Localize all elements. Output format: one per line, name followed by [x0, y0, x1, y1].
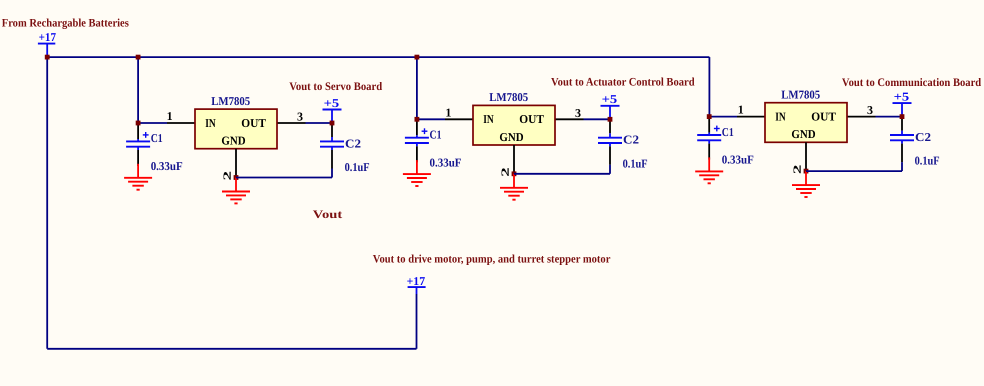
svg-text:+17: +17	[407, 274, 426, 288]
svg-text:LM7805: LM7805	[489, 90, 528, 104]
svg-text:C1: C1	[430, 128, 442, 142]
svg-text:Vout to Servo Board: Vout to Servo Board	[289, 81, 383, 93]
svg-text:Vout to drive motor, pump, and: Vout to drive motor, pump, and turret st…	[373, 254, 611, 266]
svg-text:Vout to Communication Board: Vout to Communication Board	[842, 77, 982, 89]
svg-text:+17: +17	[39, 30, 56, 44]
svg-text:OUT: OUT	[241, 116, 266, 130]
svg-text:0.33uF: 0.33uF	[151, 159, 183, 173]
svg-text:GND: GND	[221, 134, 245, 148]
svg-text:GND: GND	[791, 127, 815, 141]
svg-text:0.1uF: 0.1uF	[623, 156, 648, 170]
svg-text:OUT: OUT	[811, 109, 836, 123]
svg-text:IN: IN	[483, 112, 494, 126]
svg-text:+5: +5	[602, 92, 618, 106]
svg-text:LM7805: LM7805	[781, 87, 820, 101]
svg-text:GND: GND	[499, 130, 523, 144]
svg-text:+5: +5	[324, 96, 340, 110]
svg-text:OUT: OUT	[519, 112, 544, 126]
svg-text:0.33uF: 0.33uF	[430, 155, 462, 169]
svg-text:0.1uF: 0.1uF	[915, 154, 940, 168]
svg-text:LM7805: LM7805	[211, 94, 250, 108]
svg-text:IN: IN	[775, 109, 786, 123]
svg-text:Vout: Vout	[313, 209, 343, 221]
svg-text:IN: IN	[205, 116, 216, 130]
svg-text:3: 3	[575, 106, 581, 120]
svg-text:C2: C2	[915, 130, 931, 144]
svg-text:C2: C2	[623, 133, 639, 147]
svg-text:0.33uF: 0.33uF	[722, 153, 754, 167]
svg-text:Vout to Actuator Control Board: Vout to Actuator Control Board	[551, 77, 695, 89]
svg-text:1: 1	[167, 109, 173, 123]
svg-text:C2: C2	[345, 136, 361, 150]
svg-text:C1: C1	[151, 131, 163, 145]
svg-text:C1: C1	[722, 125, 734, 139]
svg-text:0.1uF: 0.1uF	[345, 160, 370, 174]
svg-text:3: 3	[867, 103, 873, 117]
svg-text:3: 3	[297, 110, 303, 124]
svg-text:+5: +5	[894, 89, 910, 103]
svg-text:1: 1	[445, 105, 451, 119]
svg-text:From Rechargable Batteries: From Rechargable Batteries	[2, 18, 129, 30]
svg-text:1: 1	[738, 103, 744, 117]
